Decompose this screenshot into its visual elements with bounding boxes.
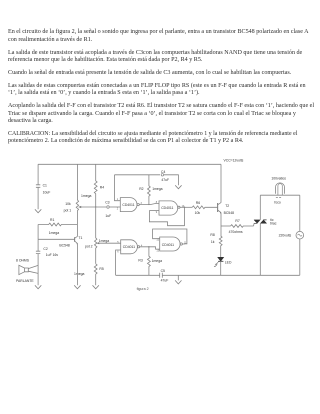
svg-text:VCC=12volts: VCC=12volts [224, 159, 244, 163]
svg-text:LED: LED [225, 261, 232, 265]
svg-text:triac: triac [270, 221, 277, 225]
svg-text:C5: C5 [161, 269, 165, 273]
paragraph 5 line 2 [8, 111, 296, 117]
node R3 top [148, 246, 150, 248]
svg-text:470ohms: 470ohms [229, 230, 243, 234]
wire C1 branch from rail [37, 164, 39, 185]
bottom rail left [116, 274, 160, 276]
svg-text:CD4011: CD4011 [162, 243, 174, 247]
resistor R7 [231, 225, 254, 228]
svg-text:figura 2: figura 2 [137, 287, 149, 291]
paragraph 5 line 1 [8, 103, 314, 109]
lamp top wire [260, 194, 300, 196]
node R2 bottom junction [148, 204, 149, 205]
svg-text:10k: 10k [65, 202, 71, 206]
wire P1 wiper to C3 [81, 206, 106, 208]
paragraph 1 line 2 [8, 37, 92, 43]
svg-text:1mega: 1mega [152, 187, 162, 191]
NAND gate U1d CD4011 (lower right) [160, 237, 180, 251]
wire gate3 output down [184, 207, 186, 225]
wire FF cross coupling upper [149, 211, 184, 226]
svg-text:6: 6 [117, 250, 119, 253]
wire left branch down to base wire [37, 225, 39, 240]
paragraph 4 line 1 [8, 83, 306, 89]
svg-text:R4: R4 [100, 185, 104, 189]
wire gate1 upper input riser [115, 175, 121, 201]
svg-text:9: 9 [156, 211, 158, 214]
LED arrows [215, 262, 218, 266]
svg-text:CD4011: CD4011 [123, 245, 135, 249]
wire gate3 output node [180, 206, 192, 208]
svg-text:100vatios: 100vatios [271, 177, 286, 181]
resistor R1 [38, 223, 77, 226]
lamp (foco) [275, 183, 284, 194]
wire C1 to ground [37, 187, 39, 209]
svg-text:1mega: 1mega [152, 259, 162, 263]
wire FF cross coupling lower [153, 229, 187, 244]
svg-text:47uF: 47uF [161, 279, 169, 283]
svg-text:C2: C2 [43, 247, 47, 251]
paragraph 2 line 2 [8, 57, 202, 63]
NAND gate U1c CD4011 (lower left) [121, 240, 138, 254]
svg-text:1uF: 1uF [105, 214, 111, 218]
svg-text:T2: T2 [225, 204, 229, 208]
ground under C2/speaker [35, 285, 41, 289]
LED D1 [218, 257, 223, 261]
capacitor C5 [160, 273, 163, 278]
triac Q1 [254, 220, 260, 223]
bottom rail right [162, 274, 299, 276]
wire gate2 output to gate4 [140, 247, 160, 249]
capacitor C3 [107, 206, 110, 209]
ground under C1 [35, 209, 41, 213]
svg-text:R2: R2 [139, 187, 143, 191]
resistor R5 [94, 264, 97, 286]
wire gate2 lower input to bottom rail [116, 250, 121, 275]
gate3 input stubs [149, 210, 159, 212]
resistor R8 [219, 236, 222, 257]
svg-text:1uF 16v: 1uF 16v [46, 253, 59, 257]
paragraph 6 line 2 [8, 138, 243, 144]
resistor R4 [94, 164, 97, 207]
wire LED to bottom rail [220, 261, 222, 275]
svg-text:220volts: 220volts [279, 234, 292, 238]
resistor R6 [192, 206, 217, 209]
svg-text:R6: R6 [196, 201, 200, 205]
transistor T2 [217, 203, 219, 212]
wire R7 tap [221, 225, 231, 227]
wire C4 to ground [164, 175, 178, 186]
svg-text:C3: C3 [105, 201, 109, 205]
svg-text:C4: C4 [161, 170, 165, 174]
resistor R2 [147, 175, 150, 204]
svg-text:R3: R3 [138, 259, 142, 263]
potentiometer P1 body on vertical line [76, 164, 78, 224]
triac main vertical [259, 195, 261, 275]
wire C4 rail [115, 174, 161, 176]
svg-text:pot 2: pot 2 [85, 244, 93, 248]
paragraph 2 line 1 [8, 50, 302, 56]
svg-text:T1: T1 [78, 236, 82, 240]
svg-text:R8: R8 [210, 233, 214, 237]
svg-text:47uF: 47uF [161, 178, 169, 182]
wire gate1 output to gate3 input [139, 203, 159, 204]
speaker wires [28, 265, 38, 273]
svg-text:PARLANTE: PARLANTE [16, 279, 34, 283]
svg-text:pot 1: pot 1 [64, 209, 72, 213]
svg-text:BC548: BC548 [224, 211, 234, 215]
capacitor C2 [36, 251, 40, 253]
svg-text:R1: R1 [50, 218, 54, 222]
svg-text:2: 2 [117, 207, 119, 210]
paragraph 1 line 1 [8, 29, 309, 35]
transistor T1 [74, 237, 76, 242]
ground under T1 [74, 285, 80, 289]
svg-text:1mega: 1mega [81, 194, 91, 198]
svg-text:1mega: 1mega [99, 239, 109, 243]
P2 wiper arrow [96, 242, 99, 244]
svg-text:1mega: 1mega [49, 231, 59, 235]
capacitor C1 [36, 185, 40, 188]
capacitor C4 [161, 174, 164, 177]
AC source wires [299, 195, 301, 275]
wire C2 to ground [37, 254, 39, 286]
svg-text:R7: R7 [235, 219, 239, 223]
wire C3 to gate1 input [110, 206, 121, 208]
svg-text:foco: foco [274, 201, 281, 205]
svg-text:CD4011: CD4011 [161, 206, 173, 210]
paragraph 4 line 2 [8, 90, 200, 96]
svg-text:13: 13 [156, 250, 159, 253]
ground at C4 [175, 185, 181, 189]
svg-text:CD4011: CD4011 [122, 203, 134, 207]
potentiometer P2 body [94, 207, 96, 264]
svg-text:BC548: BC548 [59, 244, 69, 248]
paragraph 6 line 1 [8, 131, 297, 137]
svg-text:10k: 10k [195, 211, 201, 215]
triac gate wire [253, 223, 255, 226]
wire P2 wiper to gate2 input [98, 242, 120, 244]
VCC top rail [38, 163, 221, 165]
resistor R3 [147, 247, 150, 275]
paragraph 3 [8, 70, 291, 76]
ground under R5 [93, 285, 99, 289]
ground below bottom rail [175, 275, 181, 284]
gate4 output stub [182, 243, 185, 245]
svg-text:R5: R5 [99, 267, 103, 271]
NAND gate U1a CD4011 [120, 198, 137, 212]
NAND gate U1b CD4011 (upper right of FF) [159, 201, 178, 215]
svg-text:1k: 1k [211, 240, 215, 244]
svg-text:8 OHMS: 8 OHMS [16, 258, 30, 262]
speaker [19, 265, 28, 274]
svg-text:1mega: 1mega [74, 272, 84, 276]
wire C2 branch [37, 239, 39, 251]
AC source 220volts [296, 231, 304, 239]
paragraph 5 line 3 [8, 118, 53, 124]
svg-text:10uF: 10uF [43, 190, 51, 194]
P1 wiper arrow [79, 206, 81, 208]
svg-text:C1: C1 [43, 184, 47, 188]
wire base to T1 [38, 238, 75, 240]
